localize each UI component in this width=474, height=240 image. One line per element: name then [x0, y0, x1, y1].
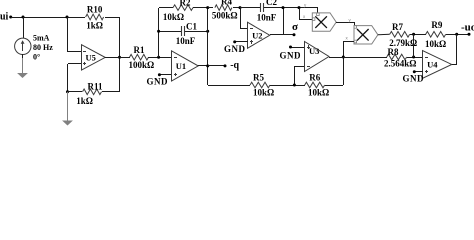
junction U3 output node [342, 56, 345, 59]
wire sigma vertical to top row [283, 8, 285, 35]
resistor R6 10k feedback [305, 73, 330, 98]
wire R1 to U1 inverting input [148, 57, 171, 59]
wire C2 left lead [240, 7, 260, 9]
svg-text:R11: R11 [87, 81, 103, 91]
junction R5/R6 (U3 input tap) [293, 84, 296, 87]
svg-text:1kΩ: 1kΩ [76, 96, 93, 106]
svg-text:R1: R1 [134, 45, 145, 55]
svg-text:GND: GND [280, 50, 302, 60]
svg-text:GND: GND [224, 44, 246, 54]
wire U1 feedback left vertical [158, 8, 160, 57]
svg-text:2.79kΩ: 2.79kΩ [389, 38, 417, 48]
multiplier A2 [354, 26, 378, 44]
wire U5 feedback vertical (R10/R11 to output) [119, 17, 121, 92]
junction U5 output node [118, 56, 121, 59]
svg-text:R10: R10 [87, 5, 103, 15]
resistor R1 100k [129, 45, 155, 70]
wire R2 left lead [159, 7, 173, 9]
pin square A2 x [354, 40, 357, 43]
wire U3 output row to R8 [329, 57, 387, 59]
svg-text:R5: R5 [253, 73, 264, 83]
multiplier A1 [312, 13, 336, 31]
wire C1 right lead [184, 31, 208, 33]
junction sigma top [282, 6, 285, 9]
op-amp U4 [423, 51, 452, 79]
wire U4 feedback vertical [456, 34, 458, 64]
svg-text:U2: U2 [252, 30, 262, 40]
capacitor C2 10nF feedback [257, 0, 278, 23]
wire A2 x-input from U3 output [343, 41, 354, 43]
svg-text:U3: U3 [309, 46, 319, 56]
junction at current source tap [22, 16, 25, 19]
op-amp U5 [82, 45, 106, 70]
wire down to current source [23, 17, 25, 38]
node sigma [292, 21, 298, 36]
resistor R2 10k feedback [163, 0, 193, 22]
svg-text:R2: R2 [180, 0, 191, 8]
svg-text:80 Hz: 80 Hz [33, 43, 53, 52]
resistor R9 10k feedback [425, 20, 446, 49]
svg-text:-uo: -uo [461, 22, 474, 34]
ground (below current source) [17, 58, 28, 78]
junction C1 left [157, 30, 160, 33]
junction ui node to U5 inverting input [66, 16, 69, 19]
wire down to U2 inverting input [240, 8, 248, 29]
ground GND at U3 noninverting input [280, 46, 302, 61]
svg-text:-q: -q [230, 60, 239, 71]
wire R10 right lead to feedback corner [105, 17, 120, 19]
svg-text:σ: σ [292, 21, 298, 33]
op-amp U2 [248, 22, 270, 48]
wire A1 output to A2 y-input [336, 22, 355, 26]
wire R7 to R9 [410, 34, 426, 36]
junction U1 input node (R2/C1 tap) [157, 56, 160, 59]
wire U4 noninverting input to ground node [414, 71, 423, 73]
wire U3 noninverting input to ground node [290, 47, 304, 49]
value label 5mA 80 Hz 0deg [33, 34, 53, 62]
wire top row from ui to R10 [11, 17, 85, 19]
junction U1 output [206, 64, 209, 67]
wire R5 to R6 [270, 85, 305, 87]
svg-text:10kΩ: 10kΩ [308, 88, 329, 98]
wire down to U5 inverting input [67, 17, 81, 52]
wire A1 x-input [299, 8, 312, 20]
junction R7/R9 node [412, 33, 415, 36]
wire R4 right lead [233, 7, 240, 9]
ground GND at U4 noninverting input [403, 70, 425, 83]
wire R4 left lead [208, 7, 213, 9]
svg-text:1kΩ: 1kΩ [86, 21, 103, 31]
resistor R11 1k [76, 81, 103, 106]
wire stub to -q node label [208, 65, 225, 67]
capacitor C1 10nF [176, 22, 198, 47]
ground GND at U1 noninverting input [147, 73, 169, 87]
wire R11 left lead [68, 91, 82, 93]
wire C1 left lead [159, 31, 181, 33]
svg-text:5mA: 5mA [33, 34, 50, 43]
wire C2 right lead to sigma vertical and A1 [263, 7, 318, 9]
svg-text:R6: R6 [309, 73, 320, 83]
junction R2/R4 top [206, 6, 209, 9]
pin square A2 y [354, 26, 357, 29]
wire U5 noninverting input to R11 node [68, 64, 82, 93]
resistor R4 500k [212, 0, 238, 20]
wire U1 output vertical (-q net) [207, 8, 209, 85]
ground GND at U2 noninverting input [224, 40, 246, 53]
svg-text:10kΩ: 10kΩ [425, 39, 446, 49]
svg-text:R7: R7 [392, 22, 403, 32]
svg-text:U5: U5 [86, 53, 96, 63]
wire R9 to output node [446, 34, 469, 36]
wire bottom row from -q vertical to R5 [208, 85, 250, 87]
ground (below R11 node) [62, 92, 73, 126]
svg-text:C2: C2 [266, 0, 277, 7]
junction R4/C2/U2 input [239, 6, 242, 9]
junction R11 / ground node [66, 90, 69, 93]
wire U3 inverting input to R5/R6 node [294, 67, 304, 86]
pin square A1 y [317, 13, 320, 16]
svg-text:U4: U4 [427, 60, 438, 70]
pin square A1 x [312, 18, 315, 21]
svg-text:0°: 0° [33, 53, 40, 62]
junction A1 x-input branch [298, 6, 301, 9]
wire current source to ground [22, 54, 24, 60]
wire U2 noninverting input to ground node [235, 41, 248, 43]
svg-text:GND: GND [147, 77, 169, 87]
wire A2 output to R7 [378, 33, 390, 36]
resistor R8 2.564k [384, 47, 416, 69]
resistor R5 10k [250, 73, 274, 98]
wire U5 output to R1 [105, 57, 130, 59]
svg-text:U1: U1 [176, 61, 186, 71]
svg-text:10nF: 10nF [257, 13, 277, 23]
node -uo output [461, 22, 474, 36]
current source I1 5mA 80Hz 0deg [15, 38, 31, 54]
junction U4 feedback corner [455, 33, 458, 36]
wire A1 y-input drop [317, 8, 319, 13]
svg-text:500kΩ: 500kΩ [212, 11, 238, 21]
wire U4 output to feedback vertical [452, 64, 457, 66]
svg-text:R8: R8 [388, 47, 399, 57]
svg-text:10nF: 10nF [176, 36, 196, 46]
wire R11 right lead to feedback vertical [102, 91, 120, 93]
svg-text:R4: R4 [221, 0, 232, 7]
svg-text:10kΩ: 10kΩ [253, 88, 274, 98]
wire R8 to U4 inverting input [407, 57, 423, 59]
svg-text:C1: C1 [186, 22, 197, 32]
wire U2 output [270, 34, 294, 36]
wire U3 output vertical to R6 [343, 42, 345, 85]
svg-text:GND: GND [403, 74, 425, 84]
svg-text:R9: R9 [431, 20, 442, 30]
junction U4 inverting input node [412, 56, 415, 59]
wire U1 output [198, 65, 208, 67]
op-amp U3 [305, 42, 330, 72]
resistor R10 1k [86, 5, 104, 31]
svg-text:100kΩ: 100kΩ [129, 60, 155, 70]
wire R2 right lead [193, 7, 208, 9]
node -q [224, 60, 240, 71]
svg-text:10kΩ: 10kΩ [163, 12, 184, 22]
junction C1 right [206, 30, 209, 33]
wire R6 right lead [325, 85, 343, 87]
op-amp U1 [172, 51, 199, 81]
node ui (input node label) [0, 11, 12, 22]
svg-text:ui: ui [0, 11, 9, 22]
wire U1 noninverting input to ground node [159, 74, 171, 76]
svg-text:2.564kΩ: 2.564kΩ [384, 59, 416, 69]
wire R7 node down to U4 inverting input [413, 34, 415, 57]
resistor R7 2.79k [389, 22, 417, 48]
